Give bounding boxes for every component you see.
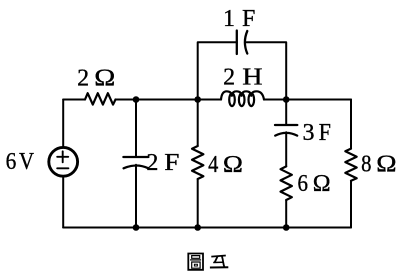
- svg-text:6: 6: [298, 170, 308, 197]
- svg-text:F: F: [242, 6, 255, 32]
- svg-text:6: 6: [6, 148, 17, 174]
- svg-text:F: F: [164, 149, 179, 176]
- svg-text:3: 3: [303, 120, 315, 146]
- svg-text:2: 2: [77, 66, 89, 92]
- svg-text:Ω: Ω: [223, 151, 243, 178]
- svg-text:F: F: [319, 118, 331, 145]
- svg-text:Ω: Ω: [313, 171, 331, 197]
- svg-text:H: H: [242, 63, 262, 90]
- svg-text:Ω: Ω: [376, 150, 396, 177]
- svg-text:2: 2: [223, 65, 235, 91]
- svg-text:V: V: [19, 148, 34, 175]
- svg-text:Ω: Ω: [94, 64, 115, 91]
- svg-text:1: 1: [223, 6, 235, 32]
- svg-text:2: 2: [146, 150, 158, 176]
- svg-text:8: 8: [361, 150, 371, 177]
- svg-text:4: 4: [208, 151, 218, 178]
